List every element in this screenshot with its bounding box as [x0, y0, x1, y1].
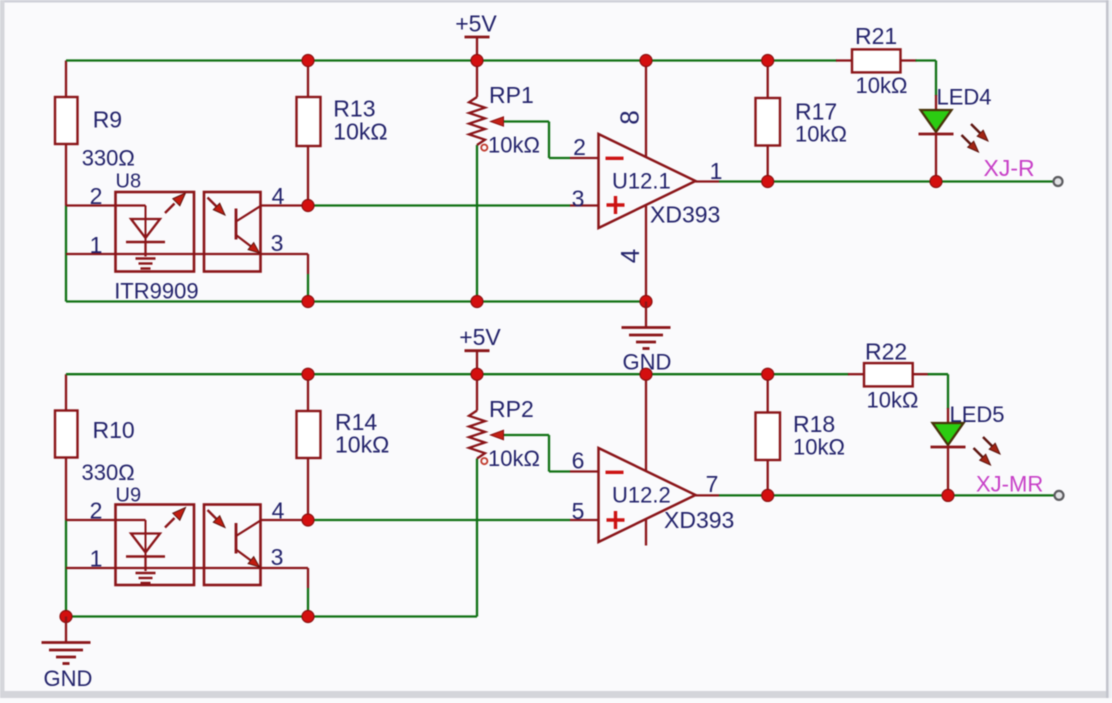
svg-text:330Ω: 330Ω [82, 460, 135, 485]
svg-text:1: 1 [90, 546, 103, 572]
svg-text:RP2: RP2 [489, 396, 534, 422]
svg-text:U9: U9 [116, 485, 142, 507]
svg-text:XJ-MR: XJ-MR [976, 472, 1043, 497]
svg-text:3: 3 [271, 230, 284, 256]
svg-text:10kΩ: 10kΩ [488, 133, 540, 158]
svg-text:4: 4 [272, 183, 285, 209]
svg-text:7: 7 [706, 471, 719, 497]
svg-text:6: 6 [572, 448, 585, 474]
svg-text:10kΩ: 10kΩ [335, 432, 389, 458]
svg-text:2: 2 [90, 498, 103, 524]
svg-text:330Ω: 330Ω [82, 146, 135, 171]
svg-text:10kΩ: 10kΩ [488, 446, 540, 471]
svg-text:R18: R18 [793, 411, 835, 437]
svg-text:8: 8 [615, 110, 645, 124]
svg-text:XD393: XD393 [664, 507, 734, 533]
svg-text:4: 4 [615, 249, 645, 263]
svg-text:RP1: RP1 [489, 82, 534, 108]
svg-text:XD393: XD393 [650, 202, 720, 228]
svg-text:10kΩ: 10kΩ [856, 73, 908, 98]
svg-text:10kΩ: 10kΩ [867, 388, 919, 413]
svg-text:2: 2 [90, 183, 103, 209]
svg-text:R22: R22 [865, 339, 907, 365]
svg-text:10kΩ: 10kΩ [333, 119, 387, 145]
svg-text:4: 4 [272, 498, 285, 524]
svg-text:R21: R21 [855, 23, 897, 49]
svg-text:2: 2 [573, 134, 586, 160]
svg-text:1: 1 [710, 158, 723, 184]
svg-text:3: 3 [271, 544, 284, 570]
svg-text:R10: R10 [93, 417, 135, 443]
svg-text:GND: GND [44, 666, 93, 691]
svg-text:+5V: +5V [455, 11, 497, 37]
svg-text:5: 5 [572, 498, 585, 524]
svg-text:10kΩ: 10kΩ [795, 122, 847, 147]
svg-text:1: 1 [90, 232, 103, 258]
svg-text:LED4: LED4 [937, 85, 992, 110]
svg-text:LED5: LED5 [950, 402, 1005, 427]
svg-text:+5V: +5V [459, 324, 501, 350]
svg-text:R9: R9 [93, 107, 122, 133]
svg-text:XJ-R: XJ-R [984, 155, 1035, 181]
svg-text:3: 3 [572, 186, 585, 212]
svg-text:10kΩ: 10kΩ [793, 435, 845, 460]
svg-text:ITR9909: ITR9909 [114, 279, 198, 304]
svg-text:U12.1: U12.1 [612, 169, 671, 194]
svg-text:U12.2: U12.2 [612, 483, 671, 508]
svg-text:U8: U8 [116, 171, 142, 193]
